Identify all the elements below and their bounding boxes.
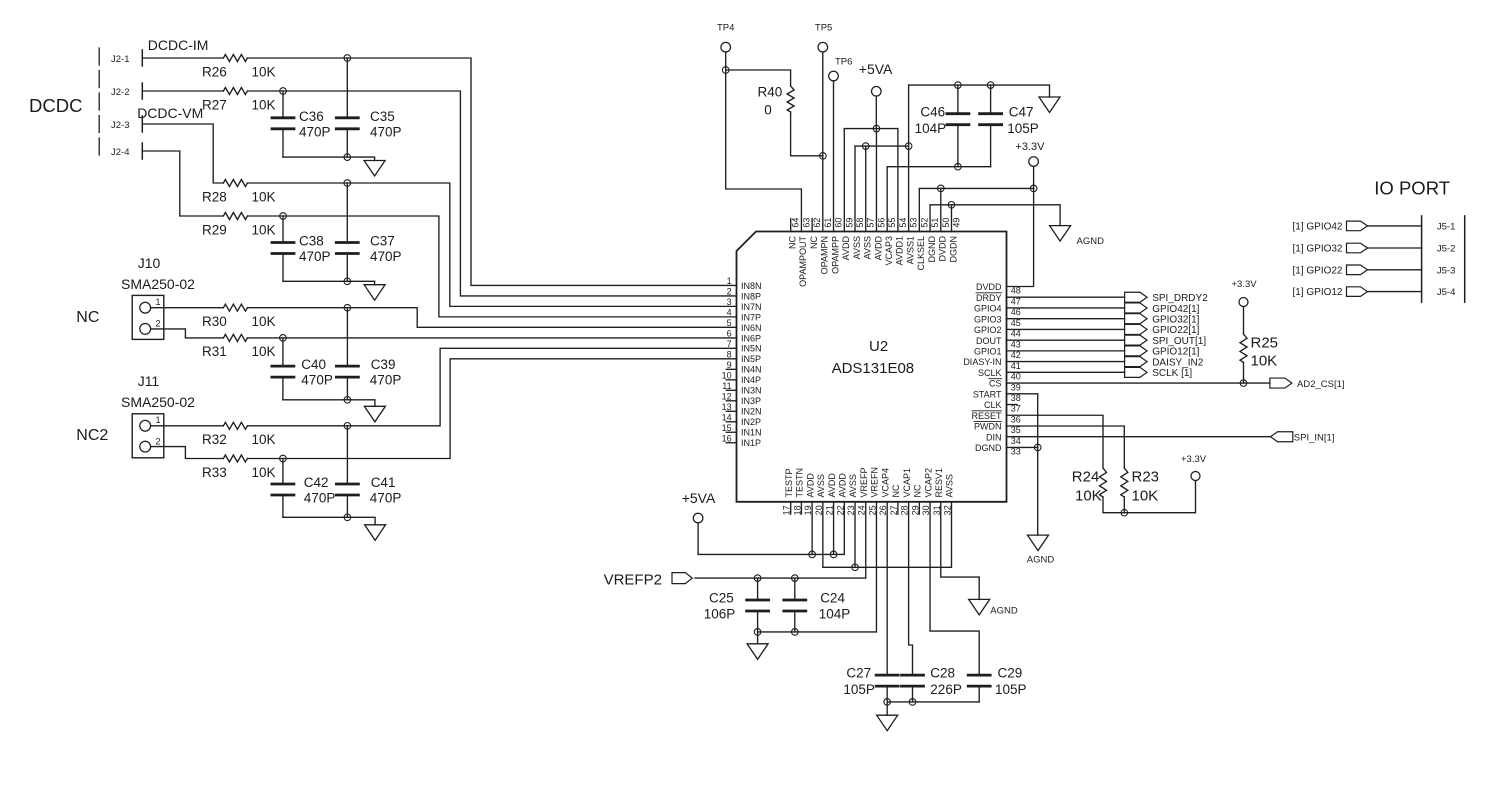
wire R30 to IN6N (pin 5) xyxy=(248,308,737,328)
node C47 top xyxy=(987,82,994,89)
svg-text:J11: J11 xyxy=(138,373,160,389)
svg-text:18: 18 xyxy=(792,505,802,515)
node R23/R24 xyxy=(1121,509,1128,516)
svg-text:CLKSEL: CLKSEL xyxy=(916,236,926,271)
capacitor C35 xyxy=(346,58,348,118)
capacitor C28 xyxy=(902,674,924,677)
wire pin 44 to net flag GPIO22[1] xyxy=(1007,328,1125,330)
svg-text:IN6P: IN6P xyxy=(741,333,761,343)
capacitor C37 xyxy=(346,183,348,243)
svg-text:39: 39 xyxy=(1011,382,1021,392)
wire pin 42 to net flag GPIO12[1] xyxy=(1007,350,1125,352)
svg-text:R28: R28 xyxy=(202,190,227,205)
svg-text:START: START xyxy=(973,389,1002,399)
wire VCAP2 (pin 30) to C29 xyxy=(930,502,979,675)
svg-text:U2: U2 xyxy=(869,338,888,355)
wire to J5-3 xyxy=(1368,269,1422,271)
ground AGND (START/DGND) xyxy=(1028,535,1049,551)
wire J10-1 to R30 xyxy=(151,307,224,309)
node R33/C42 xyxy=(280,455,287,462)
svg-text:33: 33 xyxy=(1011,447,1021,457)
svg-text:1: 1 xyxy=(727,276,732,286)
svg-text:10: 10 xyxy=(722,371,732,381)
svg-text:AVSS: AVSS xyxy=(848,474,858,497)
svg-text:GPIO2: GPIO2 xyxy=(974,325,1002,335)
svg-text:61: 61 xyxy=(823,218,833,228)
svg-text:470P: 470P xyxy=(370,249,402,264)
svg-text:1: 1 xyxy=(156,297,161,307)
net flag VREFP2 xyxy=(672,573,692,584)
node R28/C37 xyxy=(344,180,351,187)
svg-text:DGDN: DGDN xyxy=(948,236,958,263)
pin J2-3 xyxy=(141,116,143,132)
resistor R28 xyxy=(223,180,247,187)
svg-text:SCLK [1]: SCLK [1] xyxy=(1152,368,1192,379)
svg-text:SMA250-02: SMA250-02 xyxy=(121,394,195,410)
svg-text:DOUT: DOUT xyxy=(976,336,1002,346)
svg-text:IN3N: IN3N xyxy=(741,386,762,396)
svg-text:59: 59 xyxy=(844,218,854,228)
svg-text:2: 2 xyxy=(156,319,161,329)
svg-text:64: 64 xyxy=(791,218,801,228)
pin J2-2 xyxy=(141,83,143,99)
svg-text:50: 50 xyxy=(941,218,951,228)
wire DGND (pin 51)/DGDN (pin 49) to AGND xyxy=(930,205,1060,232)
wire R24 bottom xyxy=(1103,481,1196,513)
resistor R40 xyxy=(787,86,794,112)
svg-text:DCDC-IM: DCDC-IM xyxy=(148,37,209,53)
svg-text:IN4N: IN4N xyxy=(741,365,762,375)
svg-text:J2-3: J2-3 xyxy=(111,120,129,131)
wire R23 bottom xyxy=(1123,497,1125,513)
ground (C39/C40) xyxy=(364,406,385,422)
svg-text:10K: 10K xyxy=(252,190,276,205)
svg-text:AGND: AGND xyxy=(990,606,1018,617)
svg-text:+5VA: +5VA xyxy=(859,61,893,77)
node pin21 xyxy=(830,551,837,558)
svg-text:GPIO42[1]: GPIO42[1] xyxy=(1152,304,1199,315)
svg-text:DIASY-IN: DIASY-IN xyxy=(963,357,1001,367)
wire TP6 to OPAMPP (pin 60) xyxy=(833,81,835,232)
ground (C35/C36) xyxy=(364,161,385,177)
capacitor C24 xyxy=(794,578,796,600)
svg-text:NC: NC xyxy=(913,484,923,497)
svg-text:52: 52 xyxy=(919,218,929,228)
svg-text:56: 56 xyxy=(876,218,886,228)
svg-text:OPAMPOUT: OPAMPOUT xyxy=(798,236,808,287)
svg-text:IN6N: IN6N xyxy=(741,323,762,333)
svg-text:10K: 10K xyxy=(1075,487,1102,504)
svg-text:48: 48 xyxy=(1011,286,1021,296)
svg-text:7: 7 xyxy=(727,339,732,349)
wire J2-4 to R29 xyxy=(142,151,223,216)
svg-text:C36: C36 xyxy=(299,109,324,124)
svg-text:34: 34 xyxy=(1011,436,1021,446)
svg-text:10K: 10K xyxy=(252,465,276,480)
node R26/C35 xyxy=(344,55,351,62)
ground (top right) xyxy=(1039,97,1060,113)
svg-text:GPIO22[1]: GPIO22[1] xyxy=(1152,325,1199,336)
svg-text:SMA250-02: SMA250-02 xyxy=(121,276,195,292)
svg-text:6: 6 xyxy=(727,329,732,339)
wire +5VA to AVDD pins 59/56/54 xyxy=(875,96,877,129)
svg-text:TP4: TP4 xyxy=(717,23,734,34)
svg-text:VREFP: VREFP xyxy=(859,467,869,497)
node C37 gnd xyxy=(344,278,351,285)
svg-text:TP5: TP5 xyxy=(815,23,832,34)
wire J11-1 to R32 xyxy=(151,425,224,427)
svg-text:TESTP: TESTP xyxy=(784,468,794,497)
svg-text:DAISY_IN2: DAISY_IN2 xyxy=(1152,357,1204,368)
ground AGND (RESV1) xyxy=(969,599,990,615)
svg-text:C46: C46 xyxy=(920,105,945,120)
capacitor C27 xyxy=(876,674,898,677)
node START/DGND xyxy=(1034,444,1041,451)
svg-text:54: 54 xyxy=(898,218,908,228)
node C46 bottom xyxy=(955,163,962,170)
svg-text:C40: C40 xyxy=(301,357,326,372)
svg-text:DGND: DGND xyxy=(975,443,1002,453)
svg-text:R25: R25 xyxy=(1251,334,1279,351)
svg-text:NC2: NC2 xyxy=(76,427,108,444)
svg-text:GPIO1: GPIO1 xyxy=(974,346,1002,356)
svg-text:AVDD: AVDD xyxy=(841,236,851,261)
node C46 top xyxy=(955,82,962,89)
wire PWDN (pin 35) to R23 xyxy=(1007,426,1125,468)
svg-text:104P: 104P xyxy=(915,121,947,136)
svg-text:10K: 10K xyxy=(1251,353,1278,370)
svg-text:IN8N: IN8N xyxy=(741,281,762,291)
svg-text:IN3P: IN3P xyxy=(741,396,761,406)
svg-text:470P: 470P xyxy=(299,249,331,264)
wire AVSS pins 58/57/53 xyxy=(855,145,909,147)
svg-text:RESV1: RESV1 xyxy=(934,468,944,498)
svg-text:10K: 10K xyxy=(252,223,276,238)
net flag SPI_IN[1] xyxy=(1271,432,1293,442)
wire TP4 to R40 xyxy=(726,70,791,86)
svg-text:58: 58 xyxy=(855,218,865,228)
svg-text:27: 27 xyxy=(889,505,899,515)
node R29/C38 xyxy=(280,213,287,220)
node TP4/R40 xyxy=(722,67,729,74)
svg-text:17: 17 xyxy=(782,505,792,515)
node +5VA/pin56 xyxy=(873,125,880,132)
svg-text:GPIO4: GPIO4 xyxy=(974,304,1002,314)
svg-text:IN2N: IN2N xyxy=(741,407,762,417)
svg-text:C41: C41 xyxy=(371,475,396,490)
svg-text:AGND: AGND xyxy=(1077,236,1105,247)
node C35 gnd xyxy=(344,154,351,161)
svg-text:IN1P: IN1P xyxy=(741,438,761,448)
node pin50 DVDD xyxy=(937,185,944,192)
wire R28 to IN7N (pin 3) xyxy=(248,183,737,306)
net flag SPI_DRDY2 xyxy=(1125,292,1147,302)
ground AGND (digital) xyxy=(1050,226,1071,242)
resistor R30 xyxy=(223,304,247,311)
svg-text:IN4P: IN4P xyxy=(741,375,761,385)
node C25 bottom xyxy=(754,629,761,636)
wire R33 to IN5P (pin 8) xyxy=(248,359,737,459)
svg-text:43: 43 xyxy=(1011,339,1021,349)
wire DGND (pin 33) xyxy=(1007,446,1038,448)
wire C38/C37 ground bus xyxy=(283,281,375,284)
svg-text:10K: 10K xyxy=(252,65,276,80)
svg-text:C35: C35 xyxy=(370,109,395,124)
svg-text:14: 14 xyxy=(722,413,732,423)
resistor R24 xyxy=(1100,468,1107,497)
ground (C25) xyxy=(757,632,759,644)
svg-text:J2-2: J2-2 xyxy=(111,87,129,98)
svg-text:VCAP3: VCAP3 xyxy=(884,236,894,266)
svg-text:J5-4: J5-4 xyxy=(1437,287,1455,298)
connector J2 (DCDC header, dashed boundary) xyxy=(98,48,100,161)
svg-text:0: 0 xyxy=(764,103,772,118)
capacitor C25 xyxy=(757,578,759,600)
connector J5 left bar xyxy=(1421,216,1423,302)
svg-text:10K: 10K xyxy=(252,98,276,113)
svg-text:OPAMPP: OPAMPP xyxy=(830,236,840,274)
svg-text:+3.3V: +3.3V xyxy=(1232,279,1258,290)
pin J2-4 xyxy=(141,143,143,159)
net flag DAISY_IN2 xyxy=(1125,357,1147,367)
wire R31 to IN6P (pin 6) xyxy=(248,337,737,339)
wire C25/C24 to VREFN (pin 25) xyxy=(758,502,877,632)
U2 bottom pins 17-32 xyxy=(790,502,792,514)
svg-text:VCAP4: VCAP4 xyxy=(880,468,890,498)
svg-text:5: 5 xyxy=(727,318,732,328)
ground (C27 bus) xyxy=(886,702,888,715)
wire +3.3V down to DVDD pin 48 xyxy=(1007,166,1034,286)
capacitor C29 xyxy=(968,674,990,677)
wire VREFP2 to VREFP (pin 24) xyxy=(695,502,866,578)
svg-text:SPI_OUT[1]: SPI_OUT[1] xyxy=(1152,336,1206,347)
wire AVSS pins 20/23/32 xyxy=(823,502,952,568)
svg-text:57: 57 xyxy=(866,218,876,228)
svg-text:470P: 470P xyxy=(304,491,336,506)
svg-text:AGND: AGND xyxy=(1027,555,1055,566)
svg-text:IN5N: IN5N xyxy=(741,344,762,354)
resistor R23 xyxy=(1121,468,1128,497)
wire pin 46 to net flag GPIO42[1] xyxy=(1007,307,1125,309)
wire pin 40 to net flag SCLK [1] xyxy=(1007,371,1125,373)
svg-text:AVDD: AVDD xyxy=(827,473,837,498)
svg-text:C28: C28 xyxy=(930,666,955,681)
svg-text:NC: NC xyxy=(809,236,819,249)
wire DIN (pin 34) to SPI_IN xyxy=(1007,436,1271,438)
capacitor C36 xyxy=(282,91,284,118)
capacitor C46 xyxy=(957,85,959,114)
capacitor C42 xyxy=(282,459,284,485)
svg-text:C25: C25 xyxy=(709,591,734,606)
node C25 top xyxy=(754,575,761,582)
wire TP5 to pin 61 xyxy=(822,52,824,232)
svg-text:RESET: RESET xyxy=(971,411,1002,421)
svg-text:36: 36 xyxy=(1011,414,1021,424)
svg-text:VCAP1: VCAP1 xyxy=(902,468,912,498)
svg-text:C39: C39 xyxy=(371,357,396,372)
node C28 gnd xyxy=(909,699,916,706)
svg-text:37: 37 xyxy=(1011,404,1021,414)
svg-text:J5-1: J5-1 xyxy=(1437,222,1455,233)
svg-text:10K: 10K xyxy=(252,314,276,329)
svg-text:226P: 226P xyxy=(930,682,962,697)
svg-text:CLK: CLK xyxy=(984,400,1002,410)
svg-text:[1] GPIO32: [1] GPIO32 xyxy=(1292,244,1342,255)
svg-text:8: 8 xyxy=(727,350,732,360)
svg-text:R33: R33 xyxy=(202,465,227,480)
svg-text:R31: R31 xyxy=(202,344,227,359)
svg-text:GPIO3: GPIO3 xyxy=(974,314,1002,324)
svg-text:15: 15 xyxy=(722,423,732,433)
svg-text:41: 41 xyxy=(1011,361,1021,371)
svg-text:4: 4 xyxy=(727,308,732,318)
svg-text:10K: 10K xyxy=(252,344,276,359)
capacitor C47 xyxy=(990,85,992,114)
svg-text:SPI_IN[1]: SPI_IN[1] xyxy=(1294,433,1335,444)
wire R29 to IN7P (pin 4) xyxy=(248,216,737,317)
svg-text:470P: 470P xyxy=(370,124,402,139)
svg-text:NC: NC xyxy=(891,484,901,497)
capacitor C41 xyxy=(346,426,348,484)
node R30/C39 xyxy=(344,304,351,311)
node pin49 DGDN xyxy=(948,202,955,209)
svg-text:DCDC: DCDC xyxy=(29,95,82,116)
svg-text:AVSS: AVSS xyxy=(852,236,862,259)
svg-text:+5VA: +5VA xyxy=(682,490,716,506)
resistor R29 xyxy=(223,213,247,220)
svg-text:35: 35 xyxy=(1011,425,1021,435)
resistor R33 xyxy=(223,455,247,462)
wire C36/C35 ground bus xyxy=(283,157,375,160)
svg-text:12: 12 xyxy=(722,392,732,402)
svg-text:CS: CS xyxy=(989,379,1002,389)
node C24 bottom xyxy=(792,629,799,636)
connector J11 xyxy=(132,414,164,458)
svg-text:R32: R32 xyxy=(202,432,227,447)
svg-text:TP6: TP6 xyxy=(835,57,852,68)
node R27/C36 xyxy=(280,88,287,95)
svg-text:11: 11 xyxy=(722,381,731,391)
wire VCAP1 (pin 28) to C28 xyxy=(909,502,913,675)
svg-text:40: 40 xyxy=(1011,372,1021,382)
svg-text:470P: 470P xyxy=(299,124,331,139)
svg-text:R40: R40 xyxy=(758,85,783,100)
svg-text:GPIO32[1]: GPIO32[1] xyxy=(1152,314,1199,325)
svg-text:49: 49 xyxy=(952,218,962,228)
wire VCAP4 (pin 26) to C27 xyxy=(886,502,888,675)
svg-text:NC: NC xyxy=(76,309,99,326)
node C41 gnd xyxy=(344,514,351,521)
net flag SPI_OUT[1] xyxy=(1125,335,1147,345)
svg-text:47: 47 xyxy=(1011,296,1021,306)
svg-text:VREFP2: VREFP2 xyxy=(604,571,662,588)
svg-text:R24: R24 xyxy=(1072,469,1100,486)
svg-text:AVDD1: AVDD1 xyxy=(895,236,905,265)
svg-text:10K: 10K xyxy=(1132,487,1159,504)
resistor R25 xyxy=(1243,307,1245,335)
svg-text:105P: 105P xyxy=(1007,121,1039,136)
svg-text:DVDD: DVDD xyxy=(976,282,1002,292)
svg-text:IN7N: IN7N xyxy=(741,302,762,312)
svg-text:2: 2 xyxy=(156,436,161,446)
svg-text:J2-4: J2-4 xyxy=(111,147,129,158)
node R40/TP5 net xyxy=(820,153,827,160)
svg-text:C47: C47 xyxy=(1009,105,1034,120)
connector J5 right bar xyxy=(1464,216,1466,302)
svg-text:42: 42 xyxy=(1011,350,1021,360)
svg-text:IN8P: IN8P xyxy=(741,291,761,301)
svg-text:DRDY: DRDY xyxy=(976,293,1002,303)
svg-text:R30: R30 xyxy=(202,314,227,329)
wire R32 to IN5N (pin 7) xyxy=(248,348,737,425)
wire R40 to OPAMPN (pin 61) xyxy=(791,112,823,156)
wire AVSS1 (pin 53) to AGND bus xyxy=(908,85,910,231)
svg-text:+3.3V: +3.3V xyxy=(1181,454,1207,465)
svg-text:C37: C37 xyxy=(370,234,395,249)
svg-text:VCAP2: VCAP2 xyxy=(923,468,933,498)
svg-text:VREFN: VREFN xyxy=(870,467,880,498)
svg-text:46: 46 xyxy=(1011,307,1021,317)
ground (C41/C42) xyxy=(365,525,386,541)
svg-text:45: 45 xyxy=(1011,318,1021,328)
svg-text:105P: 105P xyxy=(995,682,1027,697)
svg-text:62: 62 xyxy=(812,218,822,228)
svg-text:AVSS: AVSS xyxy=(945,474,955,497)
wire pin 47 to net flag SPI_DRDY2 xyxy=(1007,296,1125,298)
svg-text:[1] GPIO22: [1] GPIO22 xyxy=(1292,265,1342,276)
svg-text:104P: 104P xyxy=(819,607,851,622)
node R31/C40 xyxy=(280,335,287,342)
node R25/CS xyxy=(1240,380,1247,387)
node C39 gnd xyxy=(344,397,351,404)
svg-text:IN5P: IN5P xyxy=(741,354,761,364)
wire C42/C41 ground bus xyxy=(283,517,375,525)
net flag GPIO42[1] xyxy=(1125,303,1147,313)
stub CLK (pin 37) xyxy=(1007,404,1018,406)
node R32/C41 xyxy=(344,423,351,430)
svg-text:51: 51 xyxy=(930,218,940,228)
svg-text:J2-1: J2-1 xyxy=(111,54,129,65)
wire AGND bus to top-right ground xyxy=(909,85,1050,97)
connector J10 xyxy=(132,295,164,339)
node pin19 xyxy=(809,551,816,558)
svg-text:DVDD: DVDD xyxy=(938,236,948,262)
node +3.3V feed xyxy=(1030,185,1037,192)
node pin53 AVSS xyxy=(905,143,912,150)
svg-text:AVDD: AVDD xyxy=(805,473,815,498)
wire TP4 to OPAMPOUT (pin 63) xyxy=(726,52,802,232)
node C27 gnd xyxy=(884,699,891,706)
svg-text:OPAMPN: OPAMPN xyxy=(820,236,830,274)
svg-text:R27: R27 xyxy=(202,98,227,113)
wire RESET (pin 36) to R24 xyxy=(1007,415,1104,468)
wire RESV1 (pin 31) to AGND xyxy=(941,502,979,600)
capacitor C39 xyxy=(346,308,348,366)
svg-text:DIN: DIN xyxy=(986,432,1002,442)
node pin23 xyxy=(852,564,859,571)
svg-text:60: 60 xyxy=(834,218,844,228)
svg-text:C29: C29 xyxy=(998,666,1023,681)
resistor R26 xyxy=(223,55,247,62)
wire pin 45 to net flag GPIO32[1] xyxy=(1007,318,1125,320)
svg-text:R26: R26 xyxy=(202,65,227,80)
wire +5VA to AVDD pins 19/21/22 xyxy=(698,502,844,555)
svg-text:2: 2 xyxy=(727,287,732,297)
svg-text:ADS131E08: ADS131E08 xyxy=(832,360,915,377)
svg-text:IN2P: IN2P xyxy=(741,417,761,427)
svg-text:+3.3V: +3.3V xyxy=(1015,141,1045,153)
net flag GPIO32[1] xyxy=(1125,314,1147,324)
